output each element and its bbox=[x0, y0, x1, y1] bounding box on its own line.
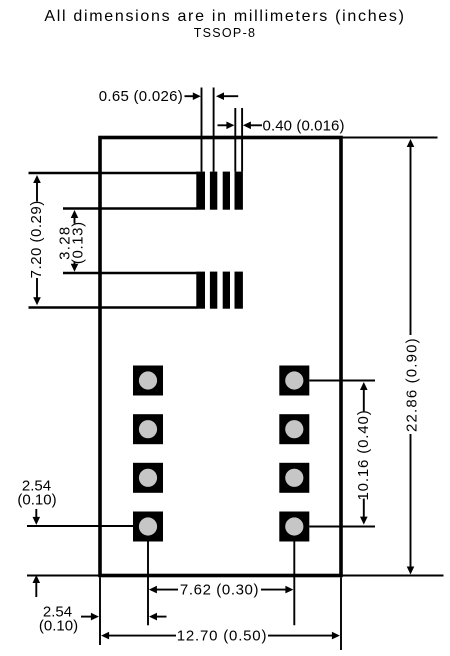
lower lead bar 1 bbox=[196, 272, 205, 309]
lead outline bottom line of upper lead group bbox=[63, 207, 197, 209]
pad A4 (row4 col1) bbox=[133, 512, 163, 542]
bottom 2.54 right-pointing arrow bbox=[81, 616, 91, 618]
3.28 dimension line lower segment with down arrow bbox=[74, 262, 76, 266]
left 2.54 down arrow bbox=[35, 509, 37, 518]
svg-text:(0.13): (0.13) bbox=[70, 221, 87, 264]
top edge extension line (right) bbox=[342, 137, 438, 139]
svg-text:10.16 (0.40): 10.16 (0.40) bbox=[355, 409, 372, 500]
svg-text:TSSOP-8: TSSOP-8 bbox=[194, 26, 257, 40]
extension line at bar4 left edge for 0.40 width bbox=[234, 108, 236, 172]
left body edge extension line below bbox=[99, 577, 101, 645]
bottom 2.54 left-pointing arrow bbox=[156, 616, 167, 618]
3.28 dimension line upper segment with up arrow bbox=[74, 216, 76, 224]
22.86 dimension line lower segment with down arrow bbox=[410, 434, 412, 568]
7.20 dimension line lower segment with down arrow bbox=[36, 278, 38, 299]
0.40 right-pointing arrow bbox=[218, 124, 229, 126]
lead outline top line of upper lead group bbox=[29, 172, 198, 174]
svg-text:0.40 (0.016): 0.40 (0.016) bbox=[263, 117, 345, 134]
7.62 left-pointing arrow bbox=[156, 589, 178, 591]
0.65 left-pointing arrow bbox=[222, 95, 238, 97]
right body edge extension line below bbox=[340, 577, 342, 650]
upper lead bar 1 bbox=[196, 172, 205, 210]
pad A3 (row3 col1) bbox=[133, 463, 163, 493]
7.20 dimension line upper segment with up arrow bbox=[36, 181, 38, 202]
12.70 left-pointing arrow bbox=[108, 635, 176, 637]
upper lead bar 3 bbox=[223, 172, 230, 210]
7.62 right-pointing arrow bbox=[261, 589, 286, 591]
upper lead bar 2 bbox=[210, 172, 217, 210]
0.40 left-pointing arrow bbox=[249, 124, 262, 126]
lower lead bar 3 bbox=[223, 272, 230, 309]
pad col1 extension line below bbox=[147, 542, 149, 626]
upper lead bar 4 bbox=[235, 172, 243, 210]
svg-text:7.20 (0.29): 7.20 (0.29) bbox=[28, 200, 45, 278]
row4 left extension line bbox=[27, 525, 133, 527]
pad col2 extension line below bbox=[293, 542, 295, 626]
extension line at bar2 center for 0.65 pitch bbox=[213, 88, 215, 172]
bottom edge extension line (left) bbox=[27, 575, 100, 577]
pad A2 (row2 col1) bbox=[133, 414, 163, 444]
row1 right extension line bbox=[309, 380, 375, 382]
pad B4 (row4 col2) bbox=[279, 512, 309, 542]
svg-text:22.86 (0.90): 22.86 (0.90) bbox=[404, 337, 421, 432]
0.65 right-pointing arrow bbox=[185, 95, 195, 97]
pad A1 (row1 col1) bbox=[133, 366, 163, 396]
pad B2 (row2 col2) bbox=[279, 414, 309, 444]
lead outline bottom line of lower lead group bbox=[29, 306, 198, 308]
pad B3 (row3 col2) bbox=[279, 463, 309, 493]
package body outline rectangle bbox=[100, 138, 341, 576]
svg-text:7.62 (0.30): 7.62 (0.30) bbox=[180, 581, 259, 598]
left 2.54 up arrow bbox=[35, 582, 37, 597]
row4 right extension line bbox=[309, 526, 375, 528]
10.16 dimension line lower segment with down arrow bbox=[363, 499, 365, 519]
svg-text:All dimensions are in millimet: All dimensions are in millimeters (inche… bbox=[44, 8, 405, 25]
svg-text:0.65 (0.026): 0.65 (0.026) bbox=[99, 88, 183, 105]
lower lead bar 2 bbox=[210, 272, 217, 309]
lead outline top line of lower lead group bbox=[63, 272, 197, 274]
svg-text:12.70 (0.50): 12.70 (0.50) bbox=[177, 627, 268, 644]
extension line at bar4 right edge for 0.40 width bbox=[241, 108, 243, 172]
10.16 dimension line upper segment with up arrow bbox=[363, 388, 365, 411]
pad B1 (row1 col2) bbox=[279, 366, 309, 396]
svg-text:(0.10): (0.10) bbox=[39, 618, 78, 635]
22.86 dimension line upper segment with up arrow bbox=[410, 145, 412, 335]
extension line at bar1 center for 0.65 pitch bbox=[201, 88, 203, 172]
svg-text:(0.10): (0.10) bbox=[17, 492, 56, 509]
lower lead bar 4 bbox=[235, 272, 243, 309]
12.70 right-pointing arrow bbox=[268, 635, 333, 637]
bottom edge extension line (right) bbox=[341, 575, 444, 577]
